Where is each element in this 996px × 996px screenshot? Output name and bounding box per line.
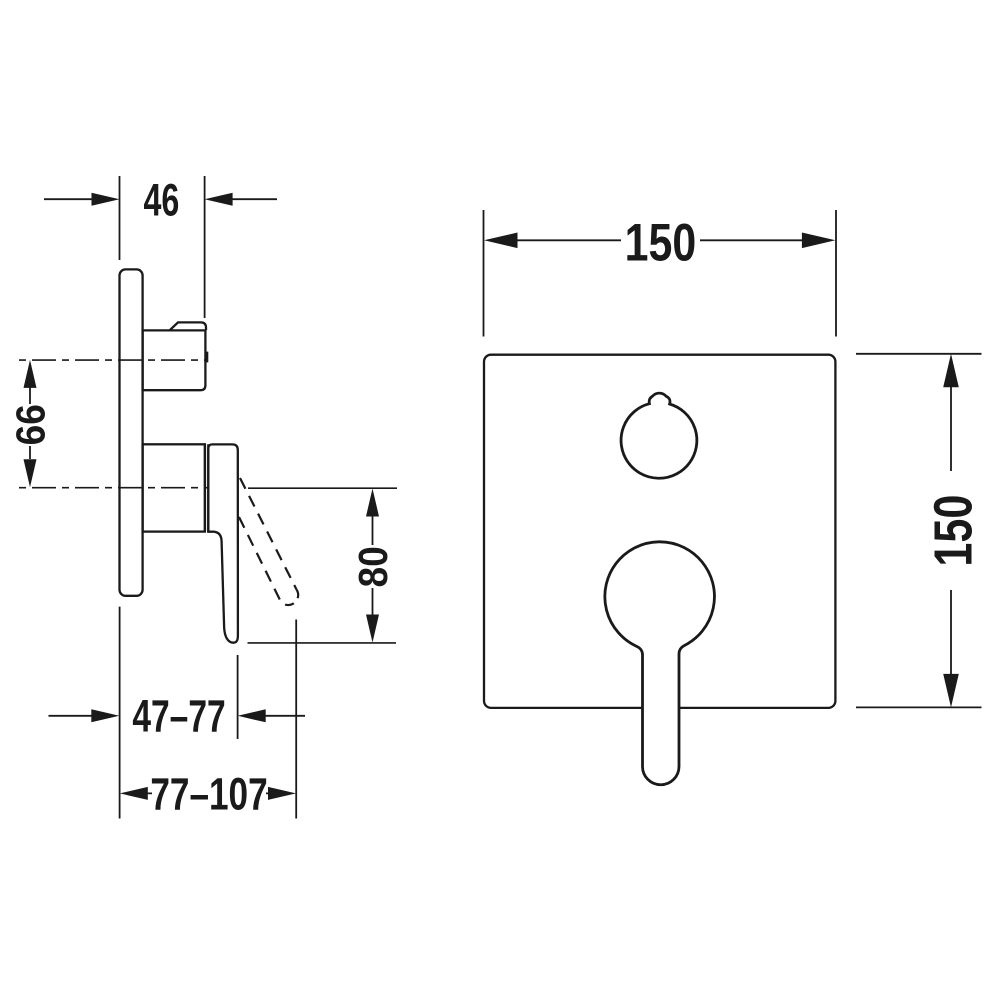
centerline upper axis	[19, 359, 207, 361]
dim 47-77 left arrow line	[49, 715, 94, 717]
dim 47-77 right extension line	[237, 655, 239, 739]
label 150 top	[625, 213, 697, 272]
arrow 47-77 right	[238, 709, 266, 722]
arrow 77-107 right	[268, 787, 296, 800]
label 80	[351, 546, 396, 587]
svg-text:150: 150	[625, 213, 697, 272]
face plate (front view)	[484, 355, 835, 708]
wall plate (side view)	[120, 269, 143, 595]
arrow 47-77 left	[91, 709, 119, 722]
svg-text:66: 66	[9, 404, 54, 445]
dim 77-107 left extension line	[119, 607, 121, 819]
diverter knob (front view)	[621, 393, 697, 478]
label 150 right	[924, 495, 984, 567]
dim 80 line segments	[372, 514, 374, 616]
arrow 66 up	[24, 360, 37, 388]
dashed lever open position line 2	[239, 517, 281, 602]
centerline lower axis	[19, 487, 209, 489]
dim 46 right arrow line	[232, 198, 277, 200]
dim 46 extension line A	[119, 176, 121, 260]
svg-text:47–77: 47–77	[132, 692, 225, 742]
dim 150 top extension lines	[484, 210, 837, 337]
knob side ridge	[206, 352, 208, 363]
label 66	[9, 404, 54, 445]
thermostat knob grip tab	[170, 322, 207, 330]
arrow 150 top right	[802, 233, 836, 249]
arrow 80 up	[366, 489, 379, 517]
arrow 150 right up	[943, 354, 959, 388]
dim 80 bottom ref line	[248, 642, 397, 644]
dim 46 left arrow line	[44, 198, 93, 200]
arrow 66 down	[24, 459, 37, 487]
mixer lever (front view)	[605, 542, 715, 785]
lever handle (side view)	[208, 444, 238, 642]
valve body cylinder (side view)	[143, 444, 205, 531]
svg-text:46: 46	[143, 176, 179, 225]
dim 66 line segments	[29, 387, 31, 459]
arrow 80 down	[366, 615, 379, 643]
dashed lever open position line 1	[240, 478, 297, 590]
arrow 150 top left	[484, 233, 518, 249]
thermostat knob (side view) body	[143, 330, 206, 390]
arrow 46 left	[92, 193, 120, 206]
dim 77-107 right extension line	[295, 620, 297, 819]
dashed lever tip arc	[281, 590, 298, 606]
label 46	[143, 176, 179, 225]
svg-text:80: 80	[351, 546, 396, 587]
dim 46 extension line B	[204, 176, 206, 318]
dim 150 top line segments	[517, 239, 802, 241]
dim 150 right extension lines	[856, 354, 982, 708]
arrow 77-107 left	[120, 787, 148, 800]
dim 150 right line segments	[950, 387, 952, 675]
dim 80 top ref line	[248, 487, 397, 489]
label 47-77	[132, 692, 225, 742]
label 77-107	[150, 768, 267, 819]
svg-text:150: 150	[924, 495, 984, 567]
arrow 46 right	[205, 193, 233, 206]
dim 77-107 line segments	[145, 792, 270, 794]
svg-text:77–107: 77–107	[150, 768, 267, 819]
arrow 150 right down	[943, 674, 959, 708]
joint lines	[205, 444, 208, 531]
dim 47-77 right arrow line	[264, 715, 305, 717]
